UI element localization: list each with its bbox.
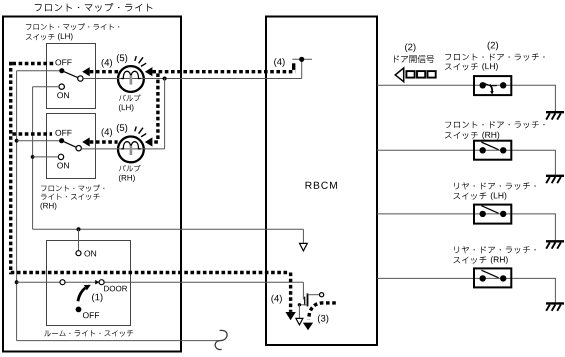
switch LH common contact [78,76,83,81]
open arrow: ON line termination [300,243,308,250]
junction: bulb wires [163,77,167,81]
wire: front door latch switch (RH) to ground [554,150,556,174]
wire: into RBCM up to node [301,59,303,78]
front door latch switch (LH) lever (pressed) [484,83,497,86]
flow: dashes bulb LH to RBCM [152,70,295,73]
ground (chassis) for front door latch switch (LH) [546,111,564,113]
wire: spare door line with break squiggle [17,340,220,342]
junction: OFF bus / switch RH OFF [15,139,19,143]
wire: room ON line into RBCM down [302,229,304,243]
ground (chassis) for rear door latch switch (LH) [546,240,564,242]
junction: room ON tap [77,227,81,231]
label (3) output flow [318,315,328,324]
wire: bulb junction vertical [164,79,166,149]
front door latch switch (LH) contacts [480,82,486,88]
rear door latch switch (LH) box [474,205,511,224]
wire: rear door latch switch (RH) to ground [554,278,556,302]
wire: ON bus to RBCM (room ON line) [33,228,304,230]
label バルブ (RH) [119,165,141,182]
junction: OFF bus / door wire [15,280,19,284]
label ON (room switch) [84,250,96,256]
junction dot at RBCM node [299,57,304,62]
label ON (switch LH) [57,92,69,98]
open arrow: source ground termination [296,318,303,325]
switch RH lever [62,141,77,148]
wire: RBCM to front door latch switch (RH) [377,149,556,151]
room switch DOOR contact [99,280,104,285]
label DOOR (room switch) [104,286,127,292]
flow arrow into switch RH [82,137,90,146]
room switch actuation arrow (1) [78,288,85,301]
label (4) at RBCM input [274,58,284,67]
switch RH common contact [76,146,81,151]
wire: ON bus vertical [32,87,34,230]
room switch common contact [60,280,65,285]
wire: switch RH to junction through bulb RH [81,148,164,150]
front map light assembly outline box [3,17,181,352]
door open signal arrow symbol [395,68,404,82]
wire: OFF bus vertical [16,71,18,341]
bulb (LH) body [118,66,144,92]
flow: branch down to row RH [156,73,159,140]
flow: branch to switch RH OFF [12,132,52,135]
RBCM module box [266,17,377,346]
wire: front door latch switch (LH) to ground [554,85,556,111]
wire: switch LH ON to ON bus [33,86,60,88]
label (4) bulb RH wire [102,128,112,137]
flow arrow output (3) [303,323,313,331]
flow arrow into switch LH [82,67,90,76]
label ON (switch RH) [57,162,69,168]
flow: RBCM end turn up [292,63,295,70]
switch RH ON contact [58,154,63,159]
wire: switch RH OFF to left bus [17,140,60,142]
flow: output path (3) curve [309,303,336,319]
label (5) bulb LH [117,54,127,63]
label (4) flow bottom [271,295,281,304]
bulb (RH) body [118,137,144,163]
rear door latch switch (RH) box [474,268,511,287]
label front door latch switch (RH) [445,121,545,139]
wire: switch LH to RBCM through bulb LH [83,78,302,80]
wire: door line into RBCM down to transistor gate [302,282,304,299]
transistor Q1 drain terminal [320,293,324,297]
wire: switch LH OFF to left bus [17,70,60,72]
label OFF (switch LH) [55,59,71,65]
rear door latch switch (LH) contacts [480,211,486,217]
ground (chassis) for rear door latch switch (RH) [546,302,564,304]
front map light switch (RH) box [47,114,96,179]
flow: dashes left of bulb LH [90,70,119,73]
front door latch switch (LH) box [474,76,511,95]
label (2) door open signal [405,43,415,52]
bulb (LH) light rays [135,56,137,61]
bulb (RH) light rays [135,127,137,132]
room switch lever arrowhead [95,280,99,285]
flow arrow into bulb LH [145,67,153,76]
diagram title: front map light (フロント・マップ・ライト) [35,3,153,12]
label (5) bulb RH [117,124,127,133]
ground (chassis) for front door latch switch (RH) [546,175,564,177]
front door latch switch (RH) lever (released) [481,142,498,150]
wire: door line from OFF bus to RBCM [17,281,304,283]
junction: source to ground [298,303,301,306]
wire: switch RH ON to ON bus [33,156,59,158]
flow: corner into bulb RH arrow [152,140,158,143]
flow: dashes left of bulb RH [90,140,118,143]
label ドア開信号 [394,55,434,63]
wire: RBCM to front door latch switch (LH) [377,84,556,86]
rear door latch switch (RH) contacts [480,275,486,281]
front door latch switch (RH) contacts [480,147,486,153]
label rear door latch switch (LH) [453,182,535,200]
label バルブ (LH) [119,94,141,111]
room switch ON contact [76,251,81,256]
flow: bottom run to RBCM [11,271,290,274]
label (4) bulb LH wire [102,59,112,68]
label ルーム・ライト・スイッチ [44,330,133,337]
switch LH ON contact [59,84,64,89]
label (1) room switch action [92,293,102,302]
bulb (RH) filament [121,142,141,149]
room switch OFF contact [76,307,82,313]
front map light switch (LH) box [47,44,96,109]
bulb (RH) base stem [130,146,133,155]
transistor Q1 drain lead [308,294,320,296]
rear door latch switch (LH) lever (released) [481,206,498,214]
switch LH OFF contact [59,68,64,73]
wire: RBCM to rear door latch switch (LH) [377,213,556,215]
transistor Q1 source lead [299,304,307,306]
bulb (LH) base stem [130,75,133,84]
wire: source down to ground arrow [298,305,300,318]
wire: rear door latch switch (LH) to ground [554,214,556,240]
bulb (LH) filament [121,71,141,78]
switch LH lever [62,71,78,78]
flow: branch to switch LH OFF [12,62,53,65]
RBCM label [306,182,337,189]
flow: RBCM down leg [289,273,292,312]
front map light switch (RH) label [41,185,105,210]
transistor Q1 gate bar [304,297,306,306]
flow arrow into bulb RH [145,137,153,146]
node stub inside RBCM [292,58,312,60]
switch RH OFF contact [59,138,64,143]
label (2) latch switch [488,42,498,51]
rear door latch switch (RH) lever (released) [481,270,498,278]
front door latch switch (RH) box [474,141,511,160]
room light switch box [47,241,131,326]
label OFF (switch RH) [55,130,71,136]
junction: ON bus / switch RH ON [31,155,35,159]
label rear door latch switch (RH) [453,246,535,264]
flow: left dashed bus vertical [9,62,12,274]
front map light switch (LH) label [26,23,120,40]
label OFF (room switch) [83,312,99,318]
flow arrow into RBCM low side [285,312,295,320]
transistor Q1 channel bar [307,293,309,306]
wire: RBCM to rear door latch switch (RH) [377,277,556,279]
label front door latch switch (LH) [445,53,545,70]
wire: room ON contact riser [78,229,80,251]
